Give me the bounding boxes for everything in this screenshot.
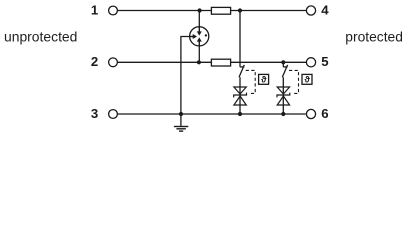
wire: suppressor branch 1 lower lead (to line 3) bbox=[239, 77, 241, 114]
dashed coupling link, branch 2 bbox=[289, 70, 299, 93]
wire: suppressor branch 2 upper lead (from line 2) bbox=[282, 62, 284, 67]
wire: gas tube bottom lead bbox=[198, 46, 200, 63]
thermal trip indicator box, branch 2 bbox=[302, 74, 312, 84]
junction: gas tube on line 1 bbox=[198, 8, 202, 12]
gas discharge tube (3-electrode) bbox=[190, 27, 209, 46]
terminal 2 bbox=[109, 58, 118, 67]
junction: branch 1 on line 1 bbox=[238, 8, 242, 12]
terminal 6 bbox=[306, 109, 315, 118]
wire: ground stub below row 3 bbox=[180, 114, 182, 126]
terminal 4 bbox=[306, 6, 315, 15]
wire row 3 (terminal 3 to terminal 6) bbox=[117, 113, 305, 115]
wire row 2 (terminal 2 to terminal 5) bbox=[117, 61, 306, 63]
dashed coupling link, branch 1 bbox=[246, 70, 256, 93]
svg-text:5: 5 bbox=[321, 54, 328, 69]
thermal trip indicator box, branch 1 bbox=[259, 74, 269, 84]
gas discharge tube internals: right dot bbox=[205, 34, 207, 36]
junction: branch 1 on line 3 bbox=[238, 112, 242, 116]
suppressor diode branch 2 (bidirectional) bbox=[277, 87, 290, 105]
wire: gas tube ground electrode, L-shape to ground bus bbox=[181, 37, 190, 115]
svg-text:ϑ: ϑ bbox=[261, 74, 267, 84]
junction: branch 2 on line 3 bbox=[281, 112, 285, 116]
gas discharge tube internals: left electrode arrow bbox=[189, 34, 197, 39]
svg-text:ϑ: ϑ bbox=[304, 74, 310, 84]
resistor R2 bbox=[211, 59, 230, 66]
svg-text:6: 6 bbox=[321, 106, 328, 121]
svg-text:3: 3 bbox=[91, 106, 98, 121]
resistor R1 bbox=[211, 7, 230, 14]
suppressor diode branch 1 (bidirectional) bbox=[234, 87, 247, 105]
thermal disconnect switch, branch 1 bbox=[239, 65, 244, 77]
terminal 5 bbox=[306, 58, 315, 67]
gas discharge tube internals: bottom arrow bbox=[197, 37, 202, 46]
terminal 1 bbox=[109, 6, 118, 15]
terminal 3 bbox=[109, 110, 118, 119]
svg-text:unprotected: unprotected bbox=[4, 29, 77, 45]
svg-text:protected: protected bbox=[345, 29, 403, 45]
wire: suppressor branch 2 lower lead (to line 3) bbox=[282, 77, 284, 114]
thermal disconnect switch, branch 2 bbox=[282, 65, 287, 77]
wire: suppressor branch 1 upper lead (from line 1, crosses line 2) bbox=[239, 11, 241, 67]
junction: gas tube on line 2 bbox=[197, 60, 201, 64]
wire: gas tube top lead bbox=[198, 11, 200, 28]
gas discharge tube internals: top arrow bbox=[197, 27, 202, 36]
junction: branch 2 on line 2 bbox=[281, 60, 285, 64]
wire row 1 (terminal 1 to terminal 4) bbox=[117, 10, 306, 12]
svg-text:2: 2 bbox=[91, 54, 98, 69]
svg-text:1: 1 bbox=[91, 2, 98, 17]
junction: ground node on line 3 bbox=[179, 112, 183, 116]
ground symbol bbox=[174, 127, 188, 132]
svg-text:4: 4 bbox=[321, 2, 329, 17]
